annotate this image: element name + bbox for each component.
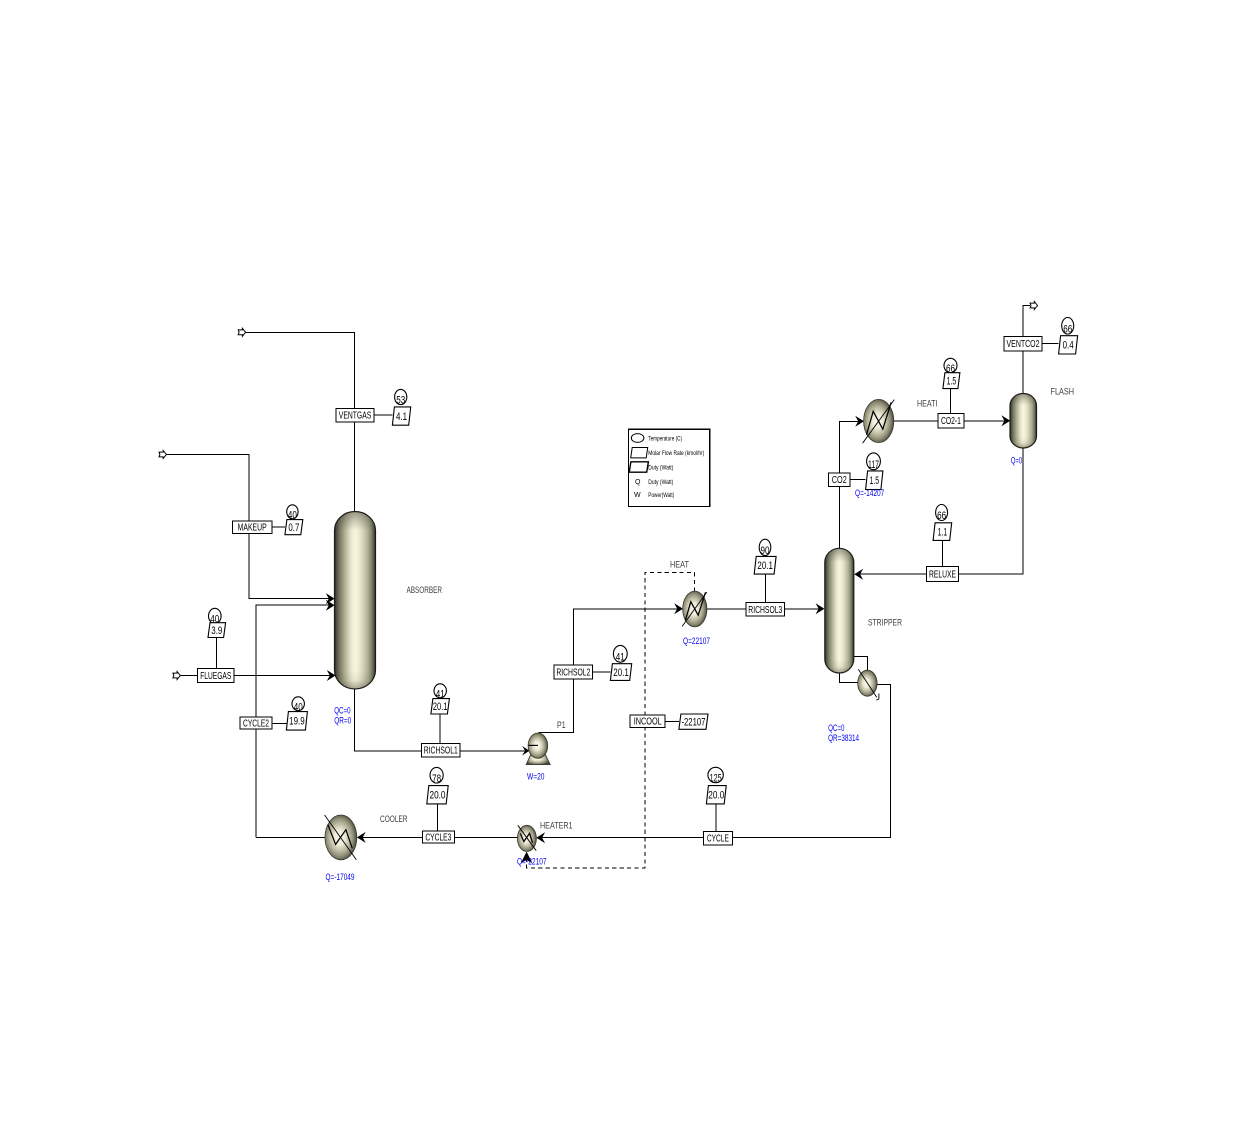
connector RICHSOL3 results <box>765 574 767 603</box>
label HEAT <box>670 560 689 571</box>
product glyph VENTGAS outlet <box>238 328 245 336</box>
legend temperature oval icon <box>631 434 644 443</box>
connector FLUEGAS results <box>216 638 218 669</box>
stream label RICHSOL1 <box>422 744 461 758</box>
legend temperature text <box>648 435 682 442</box>
svg-text:Molar Flow Rate (kmol/hr): Molar Flow Rate (kmol/hr) <box>648 450 704 457</box>
wire RELUXE flash bottom to stripper <box>855 448 1023 574</box>
temperature oval 66 (VENTCO2) <box>1062 318 1074 336</box>
legend Q symbol <box>635 479 641 486</box>
pump P1 <box>526 733 550 765</box>
svg-text:Q=22107: Q=22107 <box>683 636 710 646</box>
label P1 <box>557 720 566 731</box>
product glyph VENTCO2 outlet <box>1030 302 1037 310</box>
duty text Q=22107 (HEAT) <box>683 636 710 646</box>
svg-text:COOLER: COOLER <box>380 814 408 825</box>
svg-text:HEATI: HEATI <box>917 399 938 410</box>
wire INCOOL heat stream (dashed) <box>527 573 695 868</box>
wire MAKEUP feed <box>166 454 333 598</box>
svg-text:0.4: 0.4 <box>1063 340 1074 352</box>
arrowhead INCOOL into HEATER1 bottom <box>521 852 533 864</box>
connector CYCLE3 results <box>436 804 438 831</box>
label COOLER <box>380 814 408 825</box>
stream label MAKEUP <box>232 521 272 534</box>
stream label RICHSOL3 <box>746 603 785 617</box>
temperature oval 66 (RELUXE) <box>936 505 948 523</box>
wire VENTGAS from absorber top <box>245 332 354 512</box>
svg-text:20.0: 20.0 <box>708 790 724 802</box>
svg-text:MAKEUP: MAKEUP <box>238 522 267 534</box>
connector RICHSOL1 results <box>439 714 441 744</box>
duty text Q=-14207 (CO2) <box>855 488 884 498</box>
svg-text:ABSORBER: ABSORBER <box>407 585 443 596</box>
svg-text:66: 66 <box>937 510 946 522</box>
svg-text:HEATER1: HEATER1 <box>540 821 573 832</box>
svg-text:4.1: 4.1 <box>396 411 407 423</box>
temperature oval 53 (VENTGAS) <box>395 389 407 406</box>
svg-text:P1: P1 <box>557 720 566 731</box>
svg-text:Q=-14207: Q=-14207 <box>855 488 884 498</box>
connector VENTGAS results <box>374 414 392 416</box>
wire stripper side to reboiler top <box>853 657 868 671</box>
legend molar flow icon <box>631 448 648 458</box>
stream label CYCLE <box>703 831 732 845</box>
duty text Q=-17049 (COOLER) <box>326 872 355 882</box>
duty text Q=0 (FLASH) <box>1011 456 1022 466</box>
label FLASH <box>1051 387 1075 398</box>
wire RICHSOL1 absorber bottoms to pump <box>354 688 528 751</box>
arrowhead FLUEGAS into absorber <box>327 670 336 681</box>
flow box 20.1 (RICHSOL2) <box>610 664 631 681</box>
flow box 0.7 (MAKEUP) <box>285 520 303 535</box>
svg-text:RICHSOL2: RICHSOL2 <box>556 666 590 678</box>
svg-text:Temperature (C): Temperature (C) <box>648 435 682 442</box>
svg-text:Q=0: Q=0 <box>1011 456 1022 466</box>
svg-text:20.1: 20.1 <box>757 560 773 572</box>
svg-text:-22107: -22107 <box>681 716 705 728</box>
svg-text:VENTGAS: VENTGAS <box>339 410 372 422</box>
stream label VENTCO2 <box>1004 336 1042 351</box>
svg-text:QR=0: QR=0 <box>334 716 351 726</box>
wire CYCLE3 HEATER1 to COOLER <box>358 837 518 839</box>
connector MAKEUP results <box>272 526 285 528</box>
wire FLUEGAS feed <box>180 675 335 677</box>
power text W=20 (P1) <box>527 771 545 781</box>
legend Q duty text <box>648 479 673 486</box>
svg-text:RICHSOL3: RICHSOL3 <box>748 604 782 616</box>
arrowhead CO2-1 into flash <box>1001 415 1010 426</box>
svg-text:Duty (Watt): Duty (Watt) <box>648 465 673 472</box>
stream label FLUEGAS <box>197 669 234 683</box>
arrowhead CO2 into HEATI <box>855 416 864 427</box>
wire CO2 stripper top to HEATI <box>839 421 862 549</box>
label HEATER1 <box>540 821 573 832</box>
svg-text:CYCLE: CYCLE <box>707 833 729 845</box>
svg-text:STRIPPER: STRIPPER <box>868 618 902 629</box>
svg-text:W=20: W=20 <box>527 771 545 781</box>
flow box 1.5 (CO2) <box>866 471 883 490</box>
temperature oval 90 (RICHSOL3) <box>759 539 771 557</box>
connector CYCLE2 results <box>272 723 286 725</box>
wire CO2-1 HEATI to flash <box>894 420 1010 422</box>
legend W power text <box>648 492 674 499</box>
flash drum FLASH <box>1010 394 1037 449</box>
wire CYCLE2 riser to absorber <box>256 605 334 837</box>
duty text QC=0 (stripper) <box>828 723 844 733</box>
connector VENTCO2 results <box>1042 343 1059 345</box>
arrowhead RICHSOL1 into pump P1 <box>522 746 530 756</box>
svg-text:CYCLE2: CYCLE2 <box>243 717 269 729</box>
feed glyph MAKEUP <box>159 451 166 459</box>
flow box 1.5 (CO2-1) <box>943 373 960 389</box>
svg-text:QC=0: QC=0 <box>334 706 350 716</box>
svg-text:Power(Watt): Power(Watt) <box>648 492 674 499</box>
svg-text:0.7: 0.7 <box>288 522 299 534</box>
stripper reboiler circulator <box>858 669 879 700</box>
connector RICHSOL2 results <box>593 671 611 673</box>
duty text Q=-22107 (HEATER1) <box>517 857 547 867</box>
stream label CO2 <box>829 473 850 487</box>
heater HEATI <box>863 399 895 443</box>
stripper column STRIPPER <box>825 548 854 673</box>
svg-text:FLASH: FLASH <box>1051 387 1075 398</box>
temperature oval 66 (CO2-1) <box>944 358 957 375</box>
svg-text:HEAT: HEAT <box>670 560 689 571</box>
stream label RELUXE <box>926 567 958 582</box>
svg-text:Duty (Watt): Duty (Watt) <box>648 479 673 486</box>
svg-text:QR=38314: QR=38314 <box>828 733 859 743</box>
arrowhead RELUXE into stripper <box>854 569 863 580</box>
svg-text:CYCLE3: CYCLE3 <box>425 831 451 843</box>
svg-text:Q: Q <box>635 479 641 486</box>
connector INCOOL results <box>665 720 679 722</box>
svg-text:19.9: 19.9 <box>289 716 305 728</box>
duty text QC=0 (absorber) <box>334 706 350 716</box>
connector RELUXE results <box>942 540 944 566</box>
temperature oval 78 (CYCLE3) <box>430 767 443 784</box>
duty box -22107 (INCOOL) <box>679 714 708 729</box>
svg-text:1.1: 1.1 <box>938 526 948 538</box>
cooler COOLER <box>325 815 357 860</box>
wire stripper bottom to reboiler left <box>839 671 858 682</box>
feed glyph FLUEGAS <box>173 672 180 680</box>
stream label INCOOL <box>630 715 665 728</box>
svg-text:RICHSOL1: RICHSOL1 <box>424 745 458 757</box>
flow box 1.1 (RELUXE) <box>933 523 952 541</box>
flow box 20.0 (CYCLE3) <box>427 786 448 804</box>
svg-text:78: 78 <box>432 773 441 785</box>
heater HEAT <box>682 591 707 627</box>
svg-text:53: 53 <box>396 395 405 407</box>
legend molar flow text <box>648 450 704 457</box>
temperature oval 40 (CYCLE2) <box>292 697 304 714</box>
flow box 4.1 (VENTGAS) <box>392 407 410 425</box>
svg-text:117: 117 <box>868 459 879 471</box>
svg-text:3.9: 3.9 <box>211 625 222 637</box>
flow box 0.4 (VENTCO2) <box>1059 336 1078 354</box>
heater HEATER1 <box>517 825 536 851</box>
stream label RICHSOL2 <box>554 665 593 679</box>
connector CO2-1 results <box>950 389 952 414</box>
svg-text:90: 90 <box>761 545 770 557</box>
wire CYCLE reboiler to HEATER1 <box>537 684 890 837</box>
svg-text:41: 41 <box>616 651 625 663</box>
svg-text:QC=0: QC=0 <box>828 723 844 733</box>
temperature oval 41 (RICHSOL1) <box>434 684 446 701</box>
stream label CYCLE3 <box>422 831 454 844</box>
stream label CYCLE2 <box>240 717 272 729</box>
svg-text:CO2-1: CO2-1 <box>941 415 961 427</box>
svg-text:Q=-17049: Q=-17049 <box>326 872 355 882</box>
svg-text:20.1: 20.1 <box>433 701 448 713</box>
svg-text:20.0: 20.0 <box>430 790 446 802</box>
svg-text:INCOOL: INCOOL <box>634 716 662 728</box>
temperature oval 40 (MAKEUP) <box>287 505 298 522</box>
arrowhead CYCLE3 into COOLER <box>357 832 366 843</box>
flow box 3.9 (FLUEGAS) <box>208 623 226 638</box>
wire RICHSOL2 pump to HEAT <box>539 609 683 733</box>
absorber column ABSORBER <box>335 512 376 690</box>
svg-text:VENTCO2: VENTCO2 <box>1007 338 1040 350</box>
arrowhead MAKEUP into absorber <box>326 593 335 604</box>
arrowhead CYCLE2 into absorber <box>326 600 335 611</box>
duty text QR=38314 (stripper) <box>828 733 859 743</box>
label ABSORBER <box>407 585 443 596</box>
svg-text:RELUXE: RELUXE <box>929 569 956 581</box>
wire VENTCO2 flash top <box>1023 305 1030 393</box>
arrowhead RICHSOL2 into HEAT <box>674 603 683 614</box>
arrowhead RICHSOL3 into stripper <box>816 603 825 614</box>
svg-text:66: 66 <box>1063 323 1072 335</box>
svg-text:125: 125 <box>710 773 722 785</box>
svg-text:20.1: 20.1 <box>613 667 629 679</box>
legend duty text <box>648 465 673 472</box>
connector CO2 results <box>850 479 866 481</box>
duty text QR=0 (absorber) <box>334 716 351 726</box>
svg-text:1.5: 1.5 <box>870 475 880 487</box>
flow box 20.1 (RICHSOL1) <box>431 699 450 714</box>
legend W symbol <box>634 492 641 499</box>
svg-text:CO2: CO2 <box>832 474 847 486</box>
flow box 19.9 (CYCLE2) <box>286 712 307 731</box>
arrowhead CYCLE into HEATER1 <box>536 832 545 843</box>
wire COOLER outlet to CYCLE2 riser <box>256 837 325 839</box>
temperature oval 41 (RICHSOL2) <box>613 645 627 663</box>
svg-text:W: W <box>634 492 641 499</box>
temperature oval 40 (FLUEGAS) <box>209 608 222 625</box>
svg-text:Q=-22107: Q=-22107 <box>517 857 547 867</box>
stream label CO2-1 <box>938 414 964 428</box>
legend duty icon <box>629 462 648 472</box>
temperature oval 125 (CYCLE) <box>708 767 723 784</box>
flow box 20.0 (CYCLE) <box>706 786 726 804</box>
flow box 20.1 (RICHSOL3) <box>754 556 776 574</box>
temperature oval 117 (CO2) <box>867 453 881 471</box>
label HEATI <box>917 399 938 410</box>
wire RICHSOL3 HEAT to stripper <box>707 608 824 610</box>
svg-text:1.5: 1.5 <box>947 375 957 387</box>
stream label VENTGAS <box>336 408 374 421</box>
label STRIPPER <box>868 618 902 629</box>
svg-text:FLUEGAS: FLUEGAS <box>200 670 231 682</box>
connector CYCLE results <box>715 804 717 831</box>
legend box <box>628 429 709 506</box>
